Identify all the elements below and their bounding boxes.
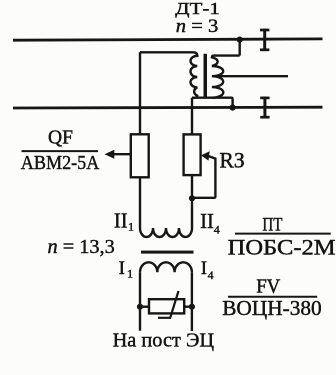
transformer DT-1 core (204, 54, 208, 98)
arrester FV body (149, 299, 184, 313)
wire: QF bottom down to winding II1 (139, 177, 141, 228)
svg-text:II: II (200, 211, 214, 233)
svg-text:RЗ: RЗ (219, 148, 244, 173)
svg-text:4: 4 (214, 223, 220, 237)
fraction bar FV (228, 296, 317, 298)
node: FV right junction (189, 304, 195, 310)
transformer PT winding I (140, 262, 192, 272)
wire: DT-1 secondary top terminal up to top rail (238, 40, 240, 56)
arrester FV varistor slash (158, 291, 179, 318)
insulated joint (top rail) (260, 29, 269, 51)
svg-text:I: I (201, 258, 207, 279)
wire: FV left lead (140, 306, 149, 308)
node: junction on bottom rail (230, 105, 236, 111)
svg-text:1: 1 (127, 266, 133, 280)
svg-text:4: 4 (208, 268, 214, 282)
rail (top) (13, 39, 323, 40)
circuit breaker QF (131, 134, 149, 177)
transformer DT-1 secondary (right) winding (212, 56, 240, 98)
transformer PT core (141, 251, 194, 254)
arrow to QF label (105, 150, 131, 159)
transformer DT-1 main (left) winding (140, 52, 197, 97)
wire: R3 bottom to junction node (191, 175, 193, 198)
R3 wiper arm with arrow (194, 151, 216, 198)
svg-text:ПОБС-2М: ПОБС-2М (228, 235, 336, 259)
svg-text:ВОЦН-380: ВОЦН-380 (222, 296, 322, 320)
wire: winding I4 down to EC post (191, 272, 193, 331)
resistor R3 (184, 134, 201, 175)
svg-text:ДТ-1: ДТ-1 (175, 0, 220, 18)
wire: DT-1 bottom link to bottom rail (192, 98, 233, 108)
wire: DT-1 secondary middle tap to the right (213, 75, 289, 77)
svg-text:II: II (114, 211, 128, 233)
node: R3 wiper junction (189, 195, 195, 201)
svg-text:На пост ЭЦ: На пост ЭЦ (113, 330, 215, 352)
wire: junction down to winding II4 (191, 198, 193, 228)
node: FV left junction (137, 304, 143, 310)
fraction bar PT (235, 233, 331, 235)
svg-text:1: 1 (128, 220, 134, 234)
transformer PT winding II (140, 228, 192, 237)
svg-text:n = 13,3: n = 13,3 (48, 236, 115, 258)
wire: winding I1 down to EC post (139, 272, 141, 331)
svg-text:ПТ: ПТ (262, 215, 282, 236)
svg-text:I: I (119, 258, 125, 279)
wire: left drop from DT-1 main winding down to QF (139, 52, 141, 134)
fraction bar QF (22, 150, 99, 152)
wire: FV right lead (184, 306, 192, 308)
insulated joint (bottom rail) (260, 97, 269, 119)
svg-text:n = 3: n = 3 (176, 17, 219, 37)
wire: drop from DT-1 windings bottom down to R3 (191, 98, 193, 135)
svg-text:QF: QF (48, 126, 73, 148)
rail (bottom) (13, 106, 323, 110)
node: junction on top rail (237, 37, 243, 43)
svg-text:АВМ2-5А: АВМ2-5А (21, 152, 100, 174)
svg-text:FV: FV (256, 276, 280, 298)
